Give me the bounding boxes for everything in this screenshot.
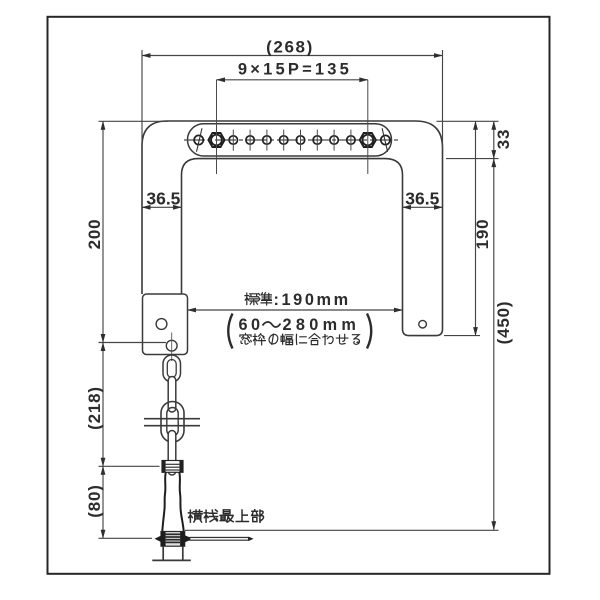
clamp base line [152, 559, 191, 561]
slotted hole plate (stadium outline) [188, 124, 392, 156]
chain link 4 (side view) [168, 431, 176, 476]
svg-text:200: 200 [85, 219, 104, 250]
clamp bolt right shaft with pointed tip [185, 535, 190, 542]
plate upper hole [156, 319, 167, 330]
dim standard 190mm line [188, 309, 403, 311]
dim 36.5 right [403, 206, 443, 208]
clamp bolt left point [155, 536, 162, 542]
chain link 1 (front view ring) [163, 355, 181, 382]
right arm hole [419, 320, 427, 328]
dim (80) [99, 465, 160, 467]
twisted wire right [179, 472, 183, 531]
hex bolt 2 [360, 133, 376, 147]
svg-text::190mm: :190mm [274, 291, 351, 309]
label 横桟最上部 [188, 510, 202, 522]
dim 190 [475, 121, 477, 335]
dim (450) [493, 159, 495, 530]
plate lower hole (chain pivot) [166, 340, 177, 351]
label 標準:190mm [245, 293, 258, 305]
svg-text:36.5: 36.5 [146, 189, 180, 209]
dim 33 [493, 121, 495, 158]
dim 36.5 left [142, 206, 182, 208]
big parentheses [228, 314, 232, 349]
svg-text:9×15P=135: 9×15P=135 [238, 61, 352, 79]
dim (218) [102, 343, 104, 467]
hole row centerline (chain line) [184, 139, 400, 141]
left arm lower plate [143, 294, 188, 355]
svg-text:36.5: 36.5 [405, 189, 439, 209]
dim 200 [99, 120, 169, 122]
right extension lines [437, 120, 499, 122]
svg-text:190: 190 [473, 219, 492, 250]
twisted wire left [162, 472, 166, 531]
dim 9x15P=135 [217, 79, 368, 81]
lower clamp block [161, 532, 185, 547]
chain link 2 (side view) [168, 377, 176, 413]
chain link 3 (front view ring) [161, 402, 184, 443]
bracket C-shaped body outline [142, 121, 443, 336]
adjuster plate edge lines through link 3 [144, 418, 200, 420]
svg-text:(450): (450) [494, 301, 513, 345]
small holes with ticks [229, 136, 237, 144]
dim (268) [141, 50, 143, 150]
svg-text:280mm: 280mm [283, 316, 361, 334]
hex bolt 1 [208, 133, 224, 147]
clamp legs [162, 546, 164, 560]
svg-text:(218): (218) [85, 386, 104, 430]
outer hole left (slanted tick) [194, 135, 203, 144]
frame border [48, 17, 550, 574]
svg-text:(80): (80) [85, 484, 104, 517]
upper ribbed connector block [162, 461, 183, 473]
svg-text:(268): (268) [266, 38, 314, 57]
outer hole right (slanted tick) [381, 135, 390, 144]
label 窓枠の幅に合わせる [240, 333, 251, 344]
svg-text:60: 60 [239, 316, 264, 334]
svg-text:33: 33 [494, 129, 513, 150]
